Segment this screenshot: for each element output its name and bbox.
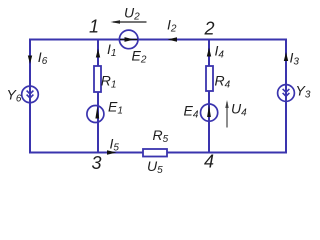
svg-text:E1: E1	[108, 99, 123, 117]
svg-text:4: 4	[204, 152, 214, 172]
svg-text:2: 2	[204, 19, 215, 39]
svg-text:3: 3	[92, 153, 102, 173]
svg-text:I1: I1	[107, 41, 116, 59]
svg-text:I3: I3	[290, 50, 300, 68]
svg-text:1: 1	[89, 17, 99, 37]
svg-text:E4: E4	[184, 103, 199, 121]
svg-text:I4: I4	[215, 43, 225, 61]
svg-text:E2: E2	[132, 48, 147, 66]
svg-text:I2: I2	[167, 17, 177, 35]
svg-text:U5: U5	[147, 158, 163, 175]
svg-text:I6: I6	[38, 49, 48, 67]
svg-text:R1: R1	[101, 73, 117, 91]
svg-text:Y6: Y6	[7, 87, 22, 105]
svg-text:U2: U2	[124, 5, 140, 23]
svg-text:U4: U4	[231, 101, 247, 119]
svg-text:I5: I5	[110, 136, 120, 154]
svg-text:R4: R4	[215, 73, 231, 91]
svg-text:Y3: Y3	[296, 83, 311, 101]
svg-text:R5: R5	[153, 127, 169, 145]
